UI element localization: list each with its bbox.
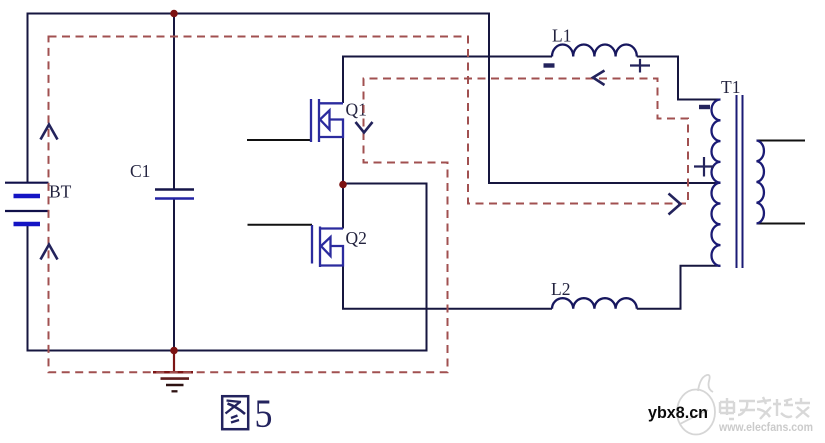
svg-text:C1: C1 bbox=[130, 161, 150, 181]
svg-text:L2: L2 bbox=[551, 279, 570, 299]
svg-text:L1: L1 bbox=[552, 26, 571, 46]
svg-text:ybx8.cn: ybx8.cn bbox=[648, 403, 708, 422]
svg-text:T1: T1 bbox=[721, 77, 740, 97]
wire L1 right lead to T1 primary top bbox=[637, 57, 721, 100]
transformer T1 primary winding bbox=[712, 100, 721, 266]
wire top rail: battery+ to right vertical to T1 center tap bbox=[28, 14, 721, 184]
svg-text:Q2: Q2 bbox=[346, 228, 367, 248]
wire Q1 drain up and L1 left lead bbox=[343, 57, 552, 104]
transistor Q1 bbox=[311, 99, 343, 142]
minus sign at T1 primary top bbox=[699, 105, 710, 109]
watermark mouse logo bbox=[677, 375, 715, 435]
wire T1 secondary bottom lead bbox=[757, 223, 806, 225]
inductor L1 bbox=[552, 44, 637, 56]
transformer T1 secondary winding bbox=[757, 141, 764, 224]
arrow down near Q1 bbox=[356, 122, 373, 133]
wire L2 right lead up to T1 primary bottom bbox=[637, 266, 721, 309]
plus sign at L1 right bbox=[630, 59, 650, 73]
plus sign at T1 center tap bbox=[694, 157, 714, 177]
dashed current loop bbox=[49, 37, 689, 373]
svg-text:BT: BT bbox=[49, 182, 72, 202]
junction node at C1 top bbox=[170, 10, 178, 18]
junction node between Q1 and Q2 bbox=[339, 181, 347, 189]
transistor Q2 bbox=[312, 225, 343, 267]
wire C1 top bbox=[173, 14, 175, 190]
arrow left on upper dashed run bbox=[593, 71, 605, 86]
wire Q1 gate lead bbox=[247, 139, 311, 141]
ground bbox=[153, 351, 193, 392]
inductor L2 bbox=[552, 298, 637, 309]
wire Q2 drain from junction bbox=[342, 184, 344, 229]
wire Q2 gate lead bbox=[248, 224, 313, 226]
capacitor C1 bbox=[155, 190, 194, 199]
svg-text:5: 5 bbox=[255, 391, 273, 436]
wire Q2 source and L2 left lead bbox=[343, 266, 552, 309]
svg-text:www.elecfans.com: www.elecfans.com bbox=[718, 420, 813, 434]
wire Q1 source to junction bbox=[342, 137, 344, 184]
watermark text elecfans CJK bbox=[720, 397, 810, 419]
arrow up on battery path (upper) bbox=[41, 125, 58, 140]
wire T1 secondary top lead bbox=[757, 140, 806, 142]
battery BT bbox=[5, 183, 49, 224]
transformer T1 core bbox=[737, 95, 743, 268]
arrow right on lower dashed run bbox=[669, 194, 681, 215]
label figure 图5 bbox=[222, 396, 248, 429]
minus sign at L1 left bbox=[544, 63, 555, 67]
wire bottom rail: mid-junction down to battery- bbox=[28, 184, 427, 351]
wire C1 bottom bbox=[173, 199, 175, 351]
arrow up on battery path (lower) bbox=[41, 245, 58, 260]
junction node at C1 bottom / ground bbox=[170, 347, 178, 355]
